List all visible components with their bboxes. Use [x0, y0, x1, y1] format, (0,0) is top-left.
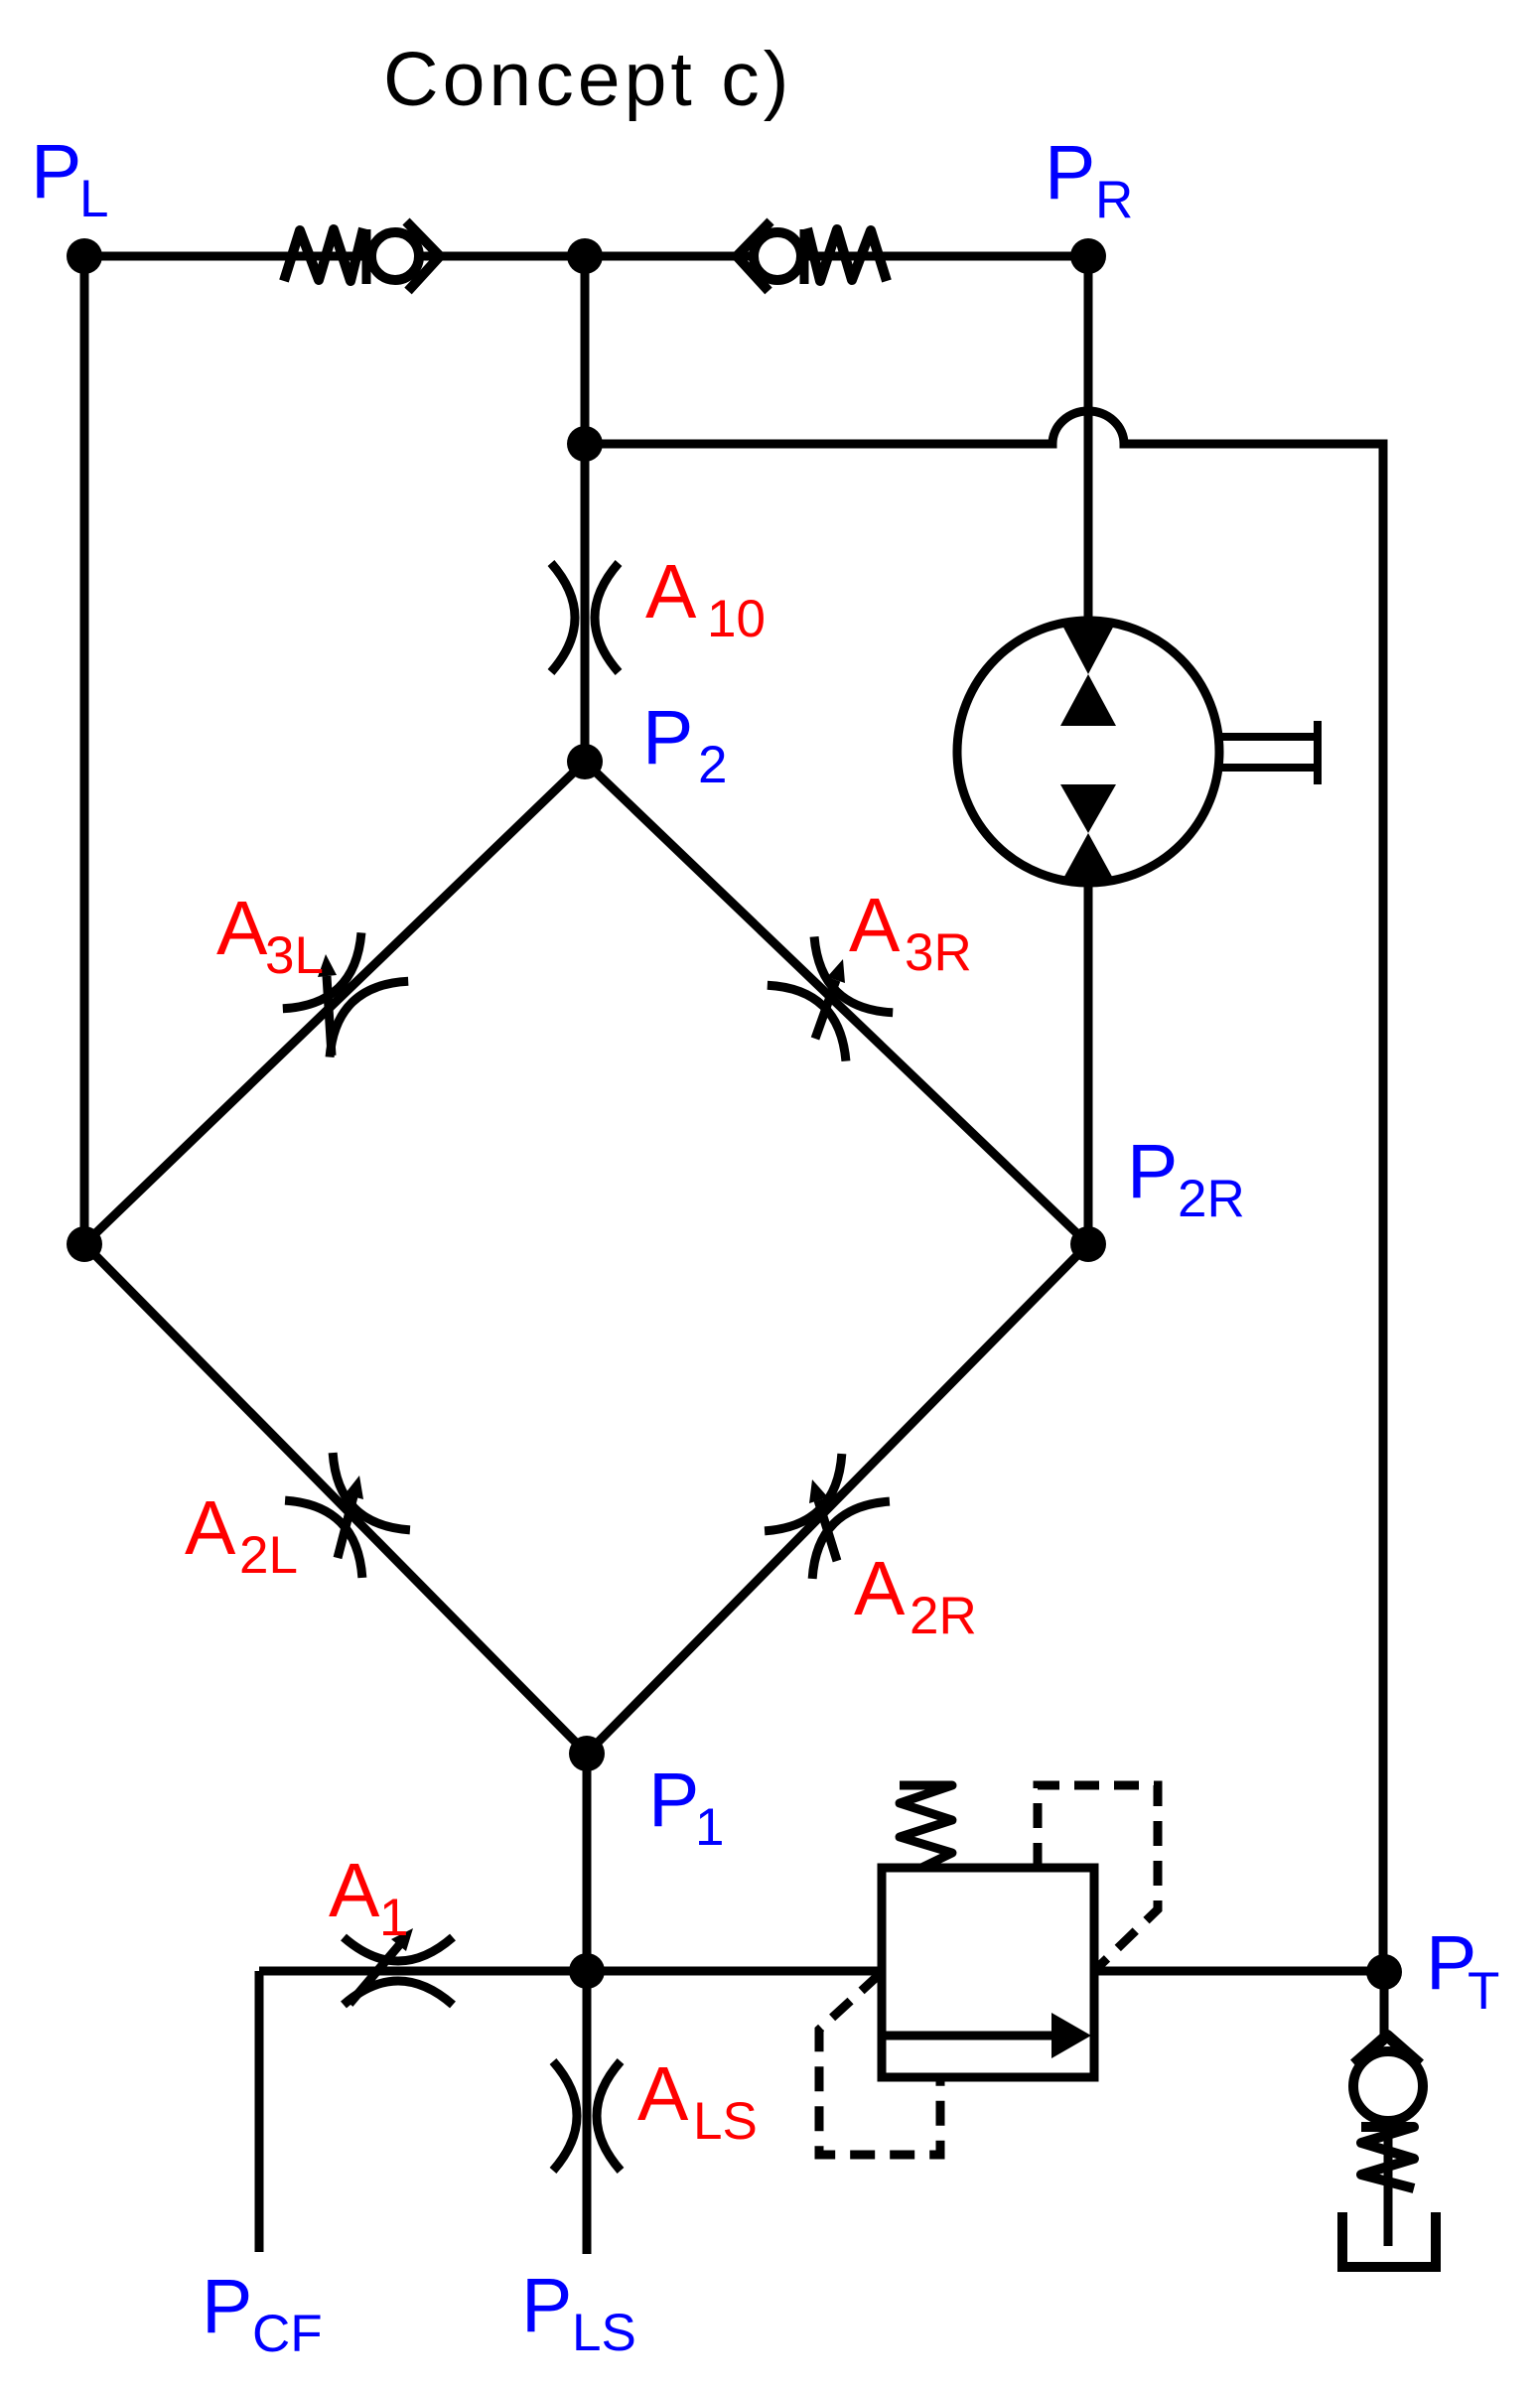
node P2R [1070, 1226, 1106, 1262]
svg-text:A: A [637, 2051, 689, 2137]
arrow A2L [338, 1476, 363, 1558]
check valve right (seat + ball + spring) [737, 221, 887, 291]
svg-text:A: A [329, 1848, 380, 1933]
wire diamond edge P2 to P2R [585, 762, 1088, 1244]
node PR [1070, 238, 1106, 274]
wire P1 down to bottom node [583, 1754, 592, 1971]
pilot line dashed left [819, 1974, 940, 2155]
node PT [1366, 1954, 1402, 1990]
label A2L [185, 1485, 298, 1585]
label PLS [521, 2263, 636, 2362]
svg-text:R: R [1095, 171, 1133, 229]
variable orifice A3L [283, 932, 408, 1056]
label A3R [849, 883, 972, 982]
variable orifice A2L [285, 1453, 410, 1578]
hydraulic motor M1 [957, 621, 1219, 884]
svg-text:3L: 3L [265, 926, 324, 985]
svg-text:P: P [31, 129, 81, 214]
wire PCF stub [255, 1971, 264, 2252]
label PCF [202, 2264, 323, 2363]
label ALS [637, 2051, 758, 2151]
orifice ALS [553, 2061, 621, 2171]
compensator spring [900, 1785, 952, 1868]
wire diamond edge P2 to left vertex [84, 762, 585, 1244]
node N2 branch [567, 426, 603, 462]
label A3L [216, 886, 324, 985]
svg-text:10: 10 [707, 590, 766, 648]
pressure compensator valve body [882, 1868, 1094, 2077]
variable orifice A1 [344, 1937, 453, 2005]
svg-text:2R: 2R [910, 1587, 977, 1645]
wire bottom main line left part [259, 1967, 882, 1976]
svg-text:P: P [1045, 130, 1095, 215]
svg-text:2: 2 [698, 736, 727, 794]
variable orifice A2R [765, 1454, 890, 1579]
check valve bottom (seat + ball + spring) [1353, 1972, 1423, 2246]
node N1 top center [567, 238, 603, 274]
label A10 [645, 549, 766, 648]
arrow A2R [809, 1479, 837, 1561]
svg-text:P: P [202, 2264, 252, 2349]
svg-text:1: 1 [695, 1798, 724, 1857]
compensator arrow [885, 2013, 1091, 2058]
svg-text:P: P [521, 2263, 572, 2348]
arrow A3R [815, 959, 845, 1039]
label P2 [642, 695, 727, 794]
svg-text:T: T [1468, 1962, 1499, 2021]
wire PL to node N1 [84, 252, 585, 261]
svg-text:A: A [216, 886, 268, 971]
svg-text:LS: LS [693, 2092, 758, 2151]
pilot line dashed right [1038, 1785, 1158, 1969]
svg-text:L: L [79, 170, 108, 228]
svg-text:A: A [185, 1485, 236, 1571]
node N3 bottom [569, 1953, 605, 1989]
wire N2 to right vertical with bridge hop over PR line [585, 411, 1383, 1972]
svg-text:A: A [854, 1546, 906, 1631]
orifice A10 [551, 563, 619, 672]
wire N1 down to P2 [581, 256, 590, 762]
wire PL down left side [80, 256, 89, 1244]
label P2R [1127, 1129, 1245, 1228]
arrow A1 [350, 1928, 413, 2004]
wire diamond edge P2R to P1 [587, 1244, 1088, 1754]
svg-text:P: P [642, 695, 693, 780]
node P1 [569, 1736, 605, 1771]
node P2 [567, 744, 603, 779]
label A1 [329, 1848, 408, 1947]
label A2R [854, 1546, 977, 1645]
check valve left (spring + ball + seat) [284, 221, 440, 291]
svg-text:P: P [648, 1758, 699, 1843]
arrow A3L [318, 954, 337, 1055]
svg-text:P: P [1127, 1129, 1178, 1214]
node PL [67, 238, 102, 274]
tank symbol [1342, 2212, 1436, 2267]
wire motor down to P2R [1084, 878, 1093, 1244]
svg-text:A: A [645, 549, 697, 634]
label P1 [648, 1758, 724, 1857]
variable orifice A3R [768, 936, 893, 1060]
svg-text:2L: 2L [239, 1526, 298, 1585]
wire PLS down from node [583, 1971, 592, 2254]
label PR [1045, 130, 1133, 229]
motor shaft [1219, 721, 1318, 784]
label PL [31, 129, 108, 228]
wire N1 to PR [585, 252, 1088, 261]
svg-text:1: 1 [379, 1889, 408, 1947]
wire PR down to motor [1084, 256, 1093, 628]
svg-text:2R: 2R [1178, 1170, 1245, 1228]
svg-text:LS: LS [572, 2304, 636, 2362]
svg-text:Concept c): Concept c) [383, 37, 792, 122]
label PT [1426, 1920, 1499, 2021]
node PLeft diamond vertex [67, 1226, 102, 1262]
svg-text:A: A [849, 883, 901, 968]
wire valve to PT [1094, 1967, 1383, 1976]
wire diamond edge left vertex to P1 [84, 1244, 587, 1754]
svg-text:CF: CF [252, 2305, 323, 2363]
svg-text:3R: 3R [905, 923, 972, 982]
